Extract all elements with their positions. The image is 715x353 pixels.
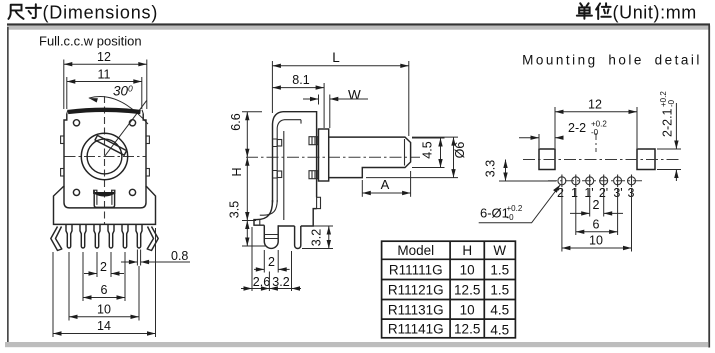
shaft tip chamfer line bbox=[404, 139, 406, 166]
svg-text:L: L bbox=[332, 50, 340, 65]
svg-text:Model: Model bbox=[397, 243, 434, 258]
body inner bottom bbox=[64, 186, 146, 208]
svg-text:2-2: 2-2 bbox=[568, 121, 586, 135]
hole 1' bbox=[586, 175, 594, 188]
shaft bbox=[329, 137, 411, 178]
mount hook right bbox=[147, 227, 158, 251]
hole 3' bbox=[614, 175, 622, 188]
center line vertical (front) bbox=[104, 96, 106, 224]
bushing plate bbox=[319, 129, 329, 181]
svg-text:-0: -0 bbox=[667, 99, 676, 107]
body outline (front) bbox=[54, 114, 156, 225]
pin plate (side) bbox=[295, 226, 301, 248]
leader line bbox=[479, 185, 561, 223]
foot curve (side) bbox=[254, 200, 273, 225]
svg-text:A: A bbox=[381, 177, 390, 192]
housing outline (side) bbox=[278, 112, 316, 226]
foot hook U (side) bbox=[264, 225, 278, 248]
svg-text:W: W bbox=[348, 88, 361, 103]
center line vertical (mount) bbox=[595, 133, 597, 152]
hole 3 bbox=[628, 175, 636, 188]
cover top curl bbox=[273, 112, 284, 203]
svg-text:3.3: 3.3 bbox=[484, 160, 498, 177]
svg-text:-0: -0 bbox=[591, 128, 599, 137]
svg-text:4.5: 4.5 bbox=[490, 323, 509, 338]
svg-text:12.5: 12.5 bbox=[454, 322, 480, 337]
svg-text:12: 12 bbox=[97, 50, 111, 64]
svg-text:1.5: 1.5 bbox=[490, 263, 509, 278]
svg-text:3.5: 3.5 bbox=[228, 201, 242, 218]
pin 1 bbox=[66, 224, 72, 248]
svg-text:2: 2 bbox=[593, 198, 600, 212]
svg-text:11: 11 bbox=[98, 68, 111, 82]
center line through holes bbox=[548, 180, 645, 182]
glyph 单 bbox=[577, 3, 592, 19]
title left: 尺寸(Dimensions) bbox=[8, 4, 41, 19]
svg-text:12.5: 12.5 bbox=[454, 283, 480, 298]
pin 4 bbox=[108, 224, 114, 248]
hole 1 bbox=[572, 175, 580, 188]
screw hole bottom-right bbox=[129, 189, 135, 195]
cover crimp notches bbox=[273, 139, 278, 178]
svg-text:+0.2: +0.2 bbox=[507, 204, 523, 213]
angle arc 30 bbox=[89, 97, 148, 124]
screw hole bottom-left bbox=[73, 189, 79, 195]
rotor inner circle bbox=[87, 139, 122, 174]
frame: top dark rule bbox=[7, 23, 710, 25]
pin 2 bbox=[80, 224, 86, 248]
svg-text:0.8: 0.8 bbox=[171, 249, 188, 263]
rotor outer circle bbox=[81, 133, 127, 179]
svg-text:R11141G: R11141G bbox=[388, 322, 444, 337]
side tab left upper bbox=[61, 136, 64, 144]
housing lower right step bbox=[301, 209, 317, 226]
svg-text:6: 6 bbox=[593, 218, 600, 232]
svg-text:R11111G: R11111G bbox=[389, 263, 443, 278]
glyph 位 bbox=[596, 3, 611, 19]
svg-text:2-2.1: 2-2.1 bbox=[661, 108, 675, 137]
svg-text:W: W bbox=[493, 243, 506, 258]
bottom clip bracket bbox=[94, 190, 114, 207]
svg-text:Full.c.c.w position: Full.c.c.w position bbox=[39, 34, 142, 49]
svg-text:3.2: 3.2 bbox=[272, 275, 289, 289]
frame: left border bbox=[7, 27, 9, 342]
svg-text:-0: -0 bbox=[507, 213, 515, 222]
center line horizontal (front) bbox=[65, 156, 146, 158]
svg-text:2: 2 bbox=[268, 255, 275, 269]
svg-text:6.6: 6.6 bbox=[229, 113, 243, 130]
mount hook left bbox=[51, 227, 62, 251]
svg-text:4.5: 4.5 bbox=[421, 141, 435, 158]
center line horizontal (squares) bbox=[523, 159, 681, 161]
svg-text:10: 10 bbox=[460, 303, 475, 318]
svg-text:1: 1 bbox=[571, 186, 578, 200]
svg-text:8.1: 8.1 bbox=[292, 73, 309, 87]
svg-text:10: 10 bbox=[460, 263, 475, 278]
svg-text:4.5: 4.5 bbox=[490, 303, 509, 318]
rotor slot at 30deg bbox=[95, 135, 127, 155]
svg-text:(Unit):mm: (Unit):mm bbox=[613, 2, 697, 22]
screw hole top-right bbox=[129, 120, 135, 126]
frame: right border bbox=[708, 26, 710, 348]
side tab left lower bbox=[61, 169, 64, 177]
title right: 单位(Unit):mm bbox=[577, 3, 611, 19]
screw hole top-left bbox=[73, 120, 79, 126]
svg-text:2: 2 bbox=[100, 260, 107, 274]
svg-text:R11121G: R11121G bbox=[388, 283, 444, 298]
svg-text:1.5: 1.5 bbox=[490, 283, 509, 298]
mount square right bbox=[637, 149, 655, 170]
housing right tabs bbox=[309, 137, 318, 145]
svg-text:14: 14 bbox=[97, 319, 111, 333]
cover inner vertical bbox=[283, 131, 285, 220]
svg-text:3.2: 3.2 bbox=[310, 229, 324, 246]
glyph 寸 bbox=[26, 4, 41, 18]
svg-text:R11131G: R11131G bbox=[388, 303, 444, 318]
svg-text:12: 12 bbox=[588, 98, 602, 112]
pin 6 bbox=[136, 224, 142, 248]
svg-text:Mounting hole detail: Mounting hole detail bbox=[522, 53, 702, 68]
bracket dark band bbox=[95, 192, 115, 197]
svg-text:6: 6 bbox=[101, 283, 108, 297]
svg-text:10: 10 bbox=[97, 303, 111, 317]
svg-text:H: H bbox=[462, 243, 472, 258]
svg-text:6-Ø1: 6-Ø1 bbox=[480, 206, 509, 221]
hole 2 bbox=[558, 175, 566, 188]
frame: bottom gray bar bbox=[5, 342, 708, 347]
dim 2-2.1 with tolerance (rotated) bbox=[659, 91, 676, 137]
shaft center line (side) bbox=[246, 156, 420, 158]
pin 3 bbox=[94, 224, 100, 248]
angle radius line bbox=[105, 101, 147, 157]
svg-text:H: H bbox=[230, 167, 244, 176]
mount square left bbox=[539, 149, 555, 170]
side tab right upper bbox=[146, 136, 149, 144]
side tab right lower bbox=[146, 169, 149, 177]
metal cap (front, dark band) bbox=[68, 110, 141, 112]
frame: top gray bar bbox=[7, 26, 710, 30]
svg-text:10: 10 bbox=[589, 234, 603, 248]
svg-text:(Dimensions): (Dimensions) bbox=[43, 2, 159, 22]
pin 5 bbox=[122, 224, 128, 248]
hole 2' bbox=[600, 175, 608, 188]
glyph 尺 bbox=[8, 5, 23, 19]
